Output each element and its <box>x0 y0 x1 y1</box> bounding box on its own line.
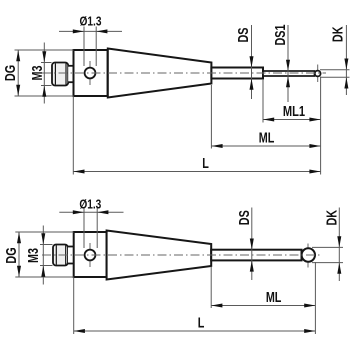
stem DS section <box>211 68 263 79</box>
cross hole <box>85 68 96 79</box>
stem DS section (bottom) <box>211 250 301 261</box>
dimension ML (bottom): dimension line with arrows <box>211 304 315 308</box>
svg-text:ML1: ML1 <box>283 102 305 119</box>
dimension DK (bottom): extension lines <box>312 247 343 262</box>
ball tip DK <box>315 71 321 77</box>
dimension DS (bottom): dimension line with arrows <box>250 208 254 281</box>
dimension L (top): dimension line with arrows <box>73 170 320 174</box>
dimension L (top): label <box>202 154 209 171</box>
dimension DS (bottom): label <box>235 210 252 225</box>
cross hole crosshair (bottom) <box>89 243 91 267</box>
svg-text:Ø1.3: Ø1.3 <box>79 197 101 211</box>
svg-text:DG: DG <box>2 247 19 263</box>
svg-text:L: L <box>198 314 205 331</box>
svg-text:M3: M3 <box>28 66 45 81</box>
dimension DG (bottom): dimension line with arrows <box>17 232 21 277</box>
svg-text:M3: M3 <box>24 248 41 263</box>
extension line at body left (L left) <box>72 97 74 175</box>
dimension DG (bottom): extension lines <box>15 232 73 277</box>
dimension DK (top): label <box>329 26 346 42</box>
holder body <box>74 50 108 96</box>
taper cone (bottom) <box>107 231 212 280</box>
svg-text:DS1: DS1 <box>271 25 288 46</box>
dimension DS: label <box>234 27 251 42</box>
extension line at ball tip (bottom right, shared by ML L) <box>314 262 316 334</box>
neck between thread and holder <box>68 66 74 82</box>
svg-text:Ø1.3: Ø1.3 <box>80 14 102 28</box>
svg-text:DS: DS <box>235 210 252 225</box>
dimension O1.3: extension lines <box>84 27 96 67</box>
ball tip DK (bottom) <box>302 248 315 261</box>
extension line at body left (bottom L left) <box>73 278 75 335</box>
dimension DG: dimension line with arrows <box>16 50 20 96</box>
svg-text:DS: DS <box>234 27 251 42</box>
svg-text:DG: DG <box>1 65 18 81</box>
svg-text:DK: DK <box>323 209 340 225</box>
dimension O1.3: label <box>80 14 102 28</box>
dimension DK (bottom): label <box>323 209 340 225</box>
svg-text:L: L <box>202 154 209 171</box>
dimension M3: extension lines <box>41 63 52 86</box>
dimension DG (bottom): label <box>2 247 19 263</box>
extension line at cone end (ML left) <box>210 85 212 149</box>
dimension ML (top): label <box>259 129 275 146</box>
dimension M3 (bottom): label <box>24 248 41 263</box>
svg-text:ML: ML <box>266 288 282 305</box>
extension line at ball tip (right, shared by ML1 ML L) <box>320 77 322 175</box>
dimension M3: dimension line with arrows <box>42 43 46 104</box>
dimension O1.3 (bottom): extension lines <box>84 208 97 248</box>
svg-text:ML: ML <box>259 129 275 146</box>
dimension DG: extension lines <box>15 50 74 96</box>
dimension M3 (bottom): extension lines <box>40 245 53 266</box>
neck between thread and holder (bottom) <box>68 247 74 264</box>
dimension ML1: dimension line with arrows <box>263 118 321 122</box>
stem DS1 thin section <box>263 71 315 76</box>
centerline (bottom stylus axis) <box>42 254 320 256</box>
dimension DK (bottom): dimension line with arrows <box>337 208 341 282</box>
ball tip crosshair (bottom) <box>307 244 309 268</box>
dimension DG: label <box>1 65 18 81</box>
dimension L (bottom): dimension line with arrows <box>74 329 316 333</box>
thread M3 body <box>52 63 68 86</box>
dimension DS1: dimension line with arrows <box>286 25 290 102</box>
holder body (bottom) <box>74 232 107 277</box>
dimension DK (top): dimension line with arrows <box>344 25 348 95</box>
taper cone <box>108 49 212 98</box>
dimension M3 (bottom): dimension line with arrows <box>41 226 45 285</box>
cross hole crosshair <box>89 61 91 85</box>
extension line at cone end (bottom ML left) <box>210 267 212 309</box>
thread M3 body (bottom) <box>53 245 68 266</box>
dimension O1.3 (bottom): dimension line with arrows <box>59 210 123 214</box>
dimension ML1: label <box>283 102 305 119</box>
dimension L (bottom): label <box>198 314 205 331</box>
dimension M3: label <box>28 66 45 81</box>
dimension DS: dimension line with arrows <box>250 25 254 99</box>
dimension DS1: label <box>271 25 288 46</box>
extension line at DS1 start (ML1 left) <box>262 79 264 123</box>
cross hole (bottom) <box>85 250 96 261</box>
dimension DK (top): extension lines <box>320 70 350 78</box>
centerline (top stylus axis) <box>42 72 326 74</box>
dimension ML (top): dimension line with arrows <box>211 144 320 148</box>
svg-text:DK: DK <box>329 26 346 42</box>
ball tip crosshair <box>317 65 319 83</box>
dimension ML (bottom): label <box>266 288 282 305</box>
dimension O1.3 (bottom): label <box>79 197 101 211</box>
dimension O1.3: dimension line with arrows <box>59 29 122 33</box>
